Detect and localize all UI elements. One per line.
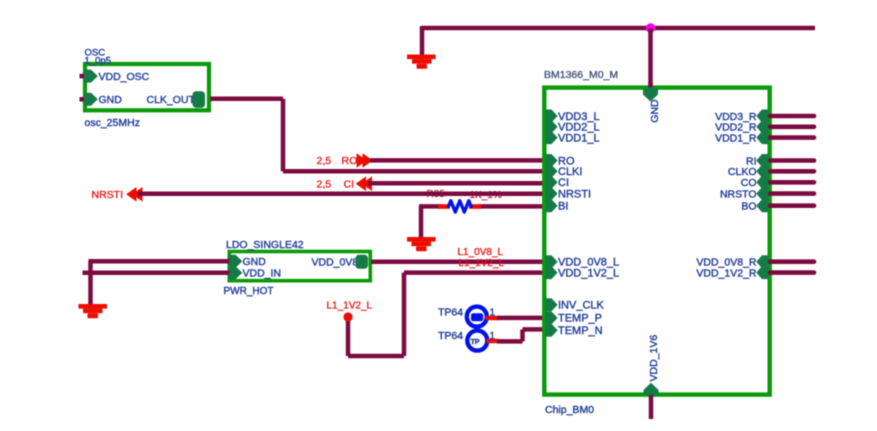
pin chip RI arrow	[756, 154, 768, 167]
wire R85 left lead to drop	[419, 204, 441, 209]
svg-text:RO: RO	[342, 155, 358, 167]
pin chip VDD_1V6 (bottom) arrow	[644, 383, 659, 395]
pin label CO	[741, 177, 757, 189]
pin chip VDD1_R arrow	[756, 131, 768, 144]
wire VDD_1V6 stub	[649, 395, 654, 419]
wire top GND horizontal	[422, 26, 815, 31]
pin label VDD_0V8_L	[558, 257, 619, 269]
label net L1_1V2_L (left)	[327, 301, 373, 312]
wire BI from resistor to chip	[478, 204, 545, 209]
pin label VDD_1V2_L	[558, 267, 619, 279]
testpoint TP2 label TP64	[438, 330, 463, 342]
wire top GND left drop	[420, 26, 425, 55]
pin OSC GND arrow	[84, 93, 98, 106]
node L1_1V2_L red dot	[343, 312, 352, 321]
svg-text:VDD_1V2_R: VDD_1V2_R	[696, 267, 757, 279]
wire stub CO	[770, 180, 814, 185]
label LDO_SINGLE42	[226, 239, 304, 251]
pin chip RO arrow	[546, 154, 558, 167]
label R85 designator	[427, 189, 446, 200]
label BM1366_M0_M	[544, 69, 618, 81]
pin chip BI arrow	[546, 199, 558, 212]
pin label NRSTI	[558, 188, 591, 200]
pin chip CLKO arrow	[756, 165, 768, 178]
svg-text:NRSTO: NRSTO	[720, 188, 757, 200]
wire stub VDD3_R	[770, 114, 814, 119]
port arrow CI (left)	[356, 176, 372, 191]
pin chip TEMP_P arrow	[546, 311, 558, 324]
pin chip CI arrow	[546, 176, 558, 189]
label port NRSTI	[92, 189, 124, 201]
svg-text:Chip_BM0: Chip_BM0	[545, 404, 594, 416]
svg-text:CI: CI	[558, 177, 569, 189]
pin chip VDD2_R arrow	[756, 120, 768, 133]
label TP2 pin 1	[490, 331, 496, 342]
testpoint TP2 TP text	[471, 339, 480, 346]
label TP1 pin 1	[490, 308, 496, 319]
svg-text:BM1366_M0_M: BM1366_M0_M	[544, 69, 618, 81]
pin LDO VDD_IN arrow	[229, 266, 243, 279]
wire VDD_1V2 vertical	[402, 273, 407, 356]
pin label RO	[558, 155, 575, 167]
pin chip VDD2_L arrow	[546, 120, 558, 133]
pin label VDD2_L	[558, 122, 600, 134]
label OSC value 1_0p5	[85, 56, 111, 67]
svg-text:BO: BO	[741, 201, 756, 213]
pin LDO GND arrow	[229, 255, 243, 268]
wire NRSTI	[138, 192, 545, 197]
wire stub VDD_0V8_R	[770, 259, 814, 264]
label R85 value 1K_1%	[470, 190, 502, 201]
pin chip VDD1_L arrow	[546, 131, 558, 144]
pin OSC VDD_OSC arrow	[84, 70, 98, 83]
svg-text:NRSTI: NRSTI	[558, 188, 591, 200]
svg-text:2,5: 2,5	[317, 178, 332, 190]
pin label TEMP_P	[558, 313, 602, 325]
pin label INV_CLK	[558, 300, 605, 312]
wire stub VDD1_R	[770, 135, 814, 140]
pin chip VDD3_R arrow	[756, 110, 768, 123]
svg-text:CO: CO	[741, 177, 757, 189]
svg-text:LDO_SINGLE42: LDO_SINGLE42	[226, 239, 304, 251]
pin OSC CLK_OUT pad	[193, 91, 206, 107]
pin chip VDD_1V2_L arrow	[546, 266, 558, 279]
pin label BO	[741, 201, 756, 213]
pin LDO VDD_0V8 pad	[356, 255, 369, 269]
label osc_25MHz	[85, 117, 140, 129]
ground GND3 (LDO)	[79, 304, 108, 318]
svg-text:1: 1	[490, 331, 496, 342]
pin label VDD3_L	[558, 111, 600, 123]
wire VDD_1V2 horizontal to chip	[404, 270, 545, 275]
pin chip VDD3_L arrow	[546, 110, 558, 123]
svg-text:GND: GND	[99, 94, 123, 106]
pin chip VDD_1V2_R arrow	[756, 266, 768, 279]
svg-text:CI: CI	[344, 178, 355, 190]
label net L1_0V8_L	[458, 247, 504, 258]
pin label GND	[99, 94, 123, 106]
pin label VDD1_L	[558, 132, 600, 144]
wire junction to chip GND pin	[648, 28, 653, 89]
wire LDO GND drop	[88, 261, 93, 305]
pin label VDD2_R	[715, 122, 757, 134]
svg-text:osc_25MHz: osc_25MHz	[85, 117, 140, 129]
svg-text:VDD_0V8: VDD_0V8	[312, 257, 359, 269]
label port 2,5 CI	[317, 178, 355, 190]
svg-text:BI: BI	[558, 201, 568, 213]
svg-text:VDD1_L: VDD1_L	[558, 132, 600, 144]
svg-text:L1_1V2_L: L1_1V2_L	[459, 258, 505, 269]
wire TEMP_N horizontal from TP2	[497, 339, 523, 344]
wire stub CLKO	[770, 169, 814, 174]
pin chip CLKI arrow	[546, 165, 558, 178]
testpoint TP1 ring	[467, 307, 487, 327]
resistor R85 leads	[438, 204, 481, 209]
svg-text:VDD_OSC: VDD_OSC	[99, 71, 150, 83]
svg-text:2,5: 2,5	[317, 155, 332, 167]
svg-text:PWR_HOT: PWR_HOT	[224, 286, 274, 297]
pin label VDD_0V8	[312, 257, 359, 269]
wire TEMP_N riser	[520, 329, 525, 341]
pin label CI	[558, 177, 569, 189]
pin chip BO arrow	[756, 199, 768, 212]
wire stub VDD_1V2_R	[770, 270, 814, 275]
port arrow RO (right)	[357, 153, 373, 168]
component U1 OSC box	[85, 64, 209, 110]
wire TEMP_N into chip	[523, 327, 546, 332]
svg-text:CLK_OUT: CLK_OUT	[147, 94, 196, 106]
wire R85 ground drop	[419, 206, 424, 238]
label net L1_1V2_L (under wire)	[459, 258, 505, 269]
pin chip NRSTI arrow	[546, 187, 558, 200]
pin label VDD_IN	[243, 268, 282, 280]
testpoint TP1 pad square	[471, 313, 483, 321]
svg-text:VDD_1V2_L: VDD_1V2_L	[558, 267, 619, 279]
pin label CLKO	[728, 166, 757, 178]
svg-text:NRSTI: NRSTI	[92, 189, 124, 201]
pin label VDD_1V2_R	[696, 267, 757, 279]
pin stub VDD_OSC	[80, 74, 85, 79]
wire stub BO	[770, 203, 814, 208]
ground GND2 (R85)	[407, 237, 436, 251]
wire stub RI	[770, 158, 814, 163]
pin label VDD_0V8_R	[696, 257, 757, 269]
pin label CLK_OUT	[147, 94, 196, 106]
svg-text:TP64: TP64	[438, 307, 463, 319]
component U3 chip BM1366 box	[544, 88, 769, 395]
pin chip VDD_0V8_L arrow	[546, 255, 558, 268]
svg-text:L1_1V2_L: L1_1V2_L	[327, 301, 373, 312]
wire CLKI into chip	[283, 169, 545, 174]
svg-text:TP: TP	[471, 339, 480, 346]
ground GND1 (top left of chip)	[407, 55, 436, 69]
component U2 LDO box	[229, 252, 370, 281]
label OSC designator	[85, 48, 106, 59]
pin stub GND	[80, 97, 85, 102]
node junction J1 magenta	[646, 23, 656, 33]
svg-text:TEMP_P: TEMP_P	[558, 313, 602, 325]
wire VDD_0V8 LDO to chip	[371, 259, 545, 264]
pin label RI	[746, 155, 757, 167]
pin label GND (LDO)	[243, 256, 267, 268]
svg-text:VDD1_R: VDD1_R	[715, 132, 757, 144]
pin chip CO arrow	[756, 176, 768, 189]
label PWR_HOT	[224, 286, 274, 297]
svg-text:TEMP_N: TEMP_N	[558, 325, 603, 337]
pin chip TEMP_N arrow	[546, 324, 558, 337]
pin chip GND (top) arrow	[643, 88, 658, 102]
svg-text:GND: GND	[243, 256, 267, 268]
label Chip_BM0	[545, 404, 594, 416]
svg-text:TP64: TP64	[438, 330, 463, 342]
svg-text:VDD_1V6: VDD_1V6	[648, 335, 660, 382]
wire VDD_1V2 bottom horizontal	[348, 354, 404, 359]
testpoint TP2 ring	[467, 331, 487, 351]
pin label VDD_1V6 (vertical)	[648, 335, 660, 382]
svg-text:GND: GND	[649, 99, 661, 123]
testpoint TP1 label TP64	[438, 307, 463, 319]
pin chip NRSTO arrow	[756, 187, 768, 200]
pin label VDD3_R	[715, 111, 757, 123]
pin label BI	[558, 201, 568, 213]
port arrow NRSTI (left)	[126, 187, 142, 202]
svg-text:VDD_IN: VDD_IN	[243, 268, 282, 280]
pin label NRSTO	[720, 188, 757, 200]
svg-text:1: 1	[490, 308, 496, 319]
pin label VDD_OSC	[99, 71, 150, 83]
wire GND drop into chip (overlay)	[648, 82, 653, 92]
wire VDD_IN	[83, 270, 230, 275]
wire stub VDD2_R	[770, 125, 814, 130]
wire LDO GND horizontal	[89, 259, 230, 264]
testpoint TP1 pin stub	[486, 316, 499, 320]
wire TEMP_P	[497, 316, 545, 321]
svg-text:L1_0V8_L: L1_0V8_L	[458, 247, 504, 258]
wire RO	[370, 158, 545, 163]
pin label CLKI	[558, 166, 582, 178]
pin label VDD1_R	[715, 132, 757, 144]
wire VDD_1V2 riser to node	[346, 319, 351, 356]
wire stub NRSTO	[770, 191, 814, 196]
wire CI	[368, 181, 545, 186]
svg-text:1_0p5: 1_0p5	[85, 56, 111, 67]
pin chip INV_CLK arrow	[546, 298, 558, 311]
pin label TEMP_N	[558, 325, 603, 337]
resistor R85 body zigzag	[449, 201, 472, 212]
label port 2,5 RO	[317, 155, 358, 167]
wire CLK_OUT horizontal	[210, 97, 283, 102]
pin chip VDD_0V8_R arrow	[756, 255, 768, 268]
wire CLK_OUT vertical	[281, 99, 286, 171]
testpoint TP2 pin stub	[487, 339, 500, 343]
svg-text:INV_CLK: INV_CLK	[558, 300, 605, 312]
pin label GND (vertical)	[649, 99, 661, 123]
